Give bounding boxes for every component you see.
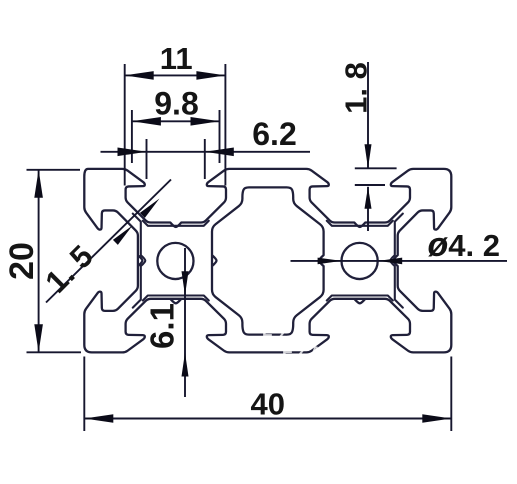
svg-text:11: 11 [160, 41, 193, 76]
left module bottom web inner line [143, 296, 209, 301]
dim 6.1 down arrow [182, 271, 189, 295]
dim 40 right arrow [422, 414, 451, 423]
dim 6.1 up arrow [182, 353, 189, 377]
dim 1.5 upper arrow [140, 199, 160, 218]
svg-text:6.2: 6.2 [252, 116, 296, 152]
svg-text:ø4. 2: ø4. 2 [428, 226, 501, 264]
dim 11 extension lines [124, 64, 126, 186]
right module outer cavity wall [390, 214, 403, 308]
dim 1.5 leader line [46, 180, 171, 303]
dia4.2 left arrow [318, 258, 342, 265]
dim 9.8 extension lines [131, 110, 133, 163]
dim 9.8 left arrow [132, 117, 161, 126]
dim 1.5 lower arrow [113, 226, 133, 245]
svg-text:9.8: 9.8 [154, 86, 198, 122]
dim 11 right arrow [196, 71, 225, 80]
dim 9.8 line [132, 120, 220, 122]
dim 20 line [38, 170, 40, 352]
svg-text:EZA ONE: EZA ONE [282, 343, 378, 362]
dim 6.2 extension lines [146, 139, 148, 179]
dim 1.8 down arrow [365, 144, 372, 168]
central mega cavity [212, 187, 324, 334]
dim 9.8 right arrow [191, 117, 220, 126]
dim 6.2 line [101, 151, 311, 153]
right module bottom web inner line [327, 296, 393, 301]
right module top web inner line [327, 221, 393, 226]
right module center bore [342, 243, 378, 279]
profile outline with V-slots [84, 169, 451, 353]
dim 20 extension lines [27, 169, 81, 171]
dim 6.2 left arrow [118, 148, 147, 157]
svg-text:40: 40 [250, 387, 284, 422]
dim 40 line [84, 418, 451, 420]
dim 11 line [125, 74, 226, 76]
dim 1.8 up arrow [365, 187, 372, 209]
left module center bore [157, 243, 193, 279]
dim 20 top arrow [34, 170, 43, 198]
dim 40 left arrow [84, 414, 113, 423]
svg-text:.....: ..... [380, 345, 411, 362]
dim 6.2 right arrow [205, 148, 234, 157]
dim 1.8 leader line [367, 62, 369, 168]
left module top web inner line [143, 221, 209, 226]
dim 1.8 tick lines [355, 167, 397, 169]
dim 20 bottom arrow [34, 324, 43, 352]
dim dia4.2 leader line [291, 260, 508, 262]
dim 6.1 leader line [184, 248, 186, 397]
svg-text:20: 20 [3, 242, 41, 280]
svg-text:1. 8: 1. 8 [338, 62, 373, 114]
dim 40 extension lines [83, 357, 85, 432]
left module outer cavity wall [133, 214, 146, 308]
dia4.2 right arrow [378, 258, 402, 265]
dim 11 left arrow [125, 71, 154, 80]
svg-text:6.1: 6.1 [143, 303, 180, 349]
